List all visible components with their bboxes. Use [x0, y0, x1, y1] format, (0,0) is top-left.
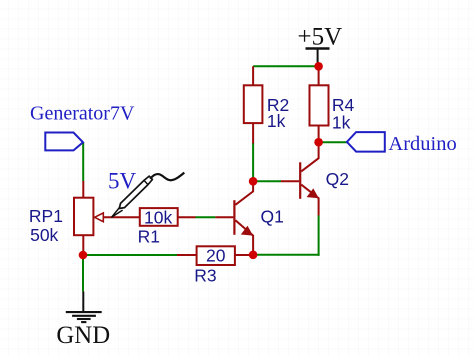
- wire bottom right horizontal: [253, 254, 320, 256]
- power port +5V: [298, 24, 343, 65]
- svg-text:1k: 1k: [267, 111, 286, 131]
- wire top horizontal: [253, 65, 319, 67]
- transistor Q2: [281, 142, 349, 215]
- junction node R2/Q1 collector: [249, 177, 258, 186]
- svg-text:GND: GND: [56, 322, 110, 349]
- net flag Arduino: [347, 132, 457, 155]
- probe with 5V label: [108, 168, 184, 217]
- resistor R4: [310, 66, 355, 142]
- wire Q2 emitter down: [318, 216, 320, 256]
- wire node down to ground: [82, 255, 84, 291]
- ground: [56, 291, 110, 349]
- svg-text:1k: 1k: [332, 112, 351, 132]
- resistor R3: [177, 245, 253, 285]
- svg-text:50k: 50k: [30, 225, 58, 245]
- wire bottom left horizontal: [83, 254, 178, 256]
- wire below R2 down to node: [252, 143, 254, 182]
- svg-text:Q2: Q2: [326, 169, 349, 189]
- wire between R1 and Q1 base: [196, 216, 216, 218]
- svg-text:Q1: Q1: [261, 207, 284, 227]
- junction node at +5V: [314, 62, 323, 71]
- potentiometer RP1: [29, 181, 140, 255]
- wire node to Q2 base: [253, 180, 281, 182]
- svg-text:R3: R3: [194, 266, 216, 286]
- svg-text:Generator7V: Generator7V: [30, 102, 135, 124]
- wire node to Arduino flag: [319, 141, 348, 143]
- wire from Generator flag down to RP1: [82, 142, 84, 181]
- svg-text:Arduino: Arduino: [388, 133, 456, 155]
- junction node R4/Arduino: [314, 138, 323, 147]
- svg-text:+5V: +5V: [298, 24, 343, 51]
- resistor R2: [244, 66, 289, 143]
- net flag Generator7V: [30, 102, 135, 150]
- transistor Q1: [215, 181, 283, 252]
- resistor R1: [138, 207, 196, 246]
- svg-text:RP1: RP1: [29, 206, 63, 226]
- junction node bottom left: [79, 251, 88, 260]
- junction node bottom right: [249, 251, 258, 260]
- svg-text:10k: 10k: [144, 207, 172, 227]
- svg-text:5V: 5V: [108, 168, 137, 193]
- svg-text:20: 20: [206, 245, 226, 265]
- svg-text:R1: R1: [138, 226, 160, 246]
